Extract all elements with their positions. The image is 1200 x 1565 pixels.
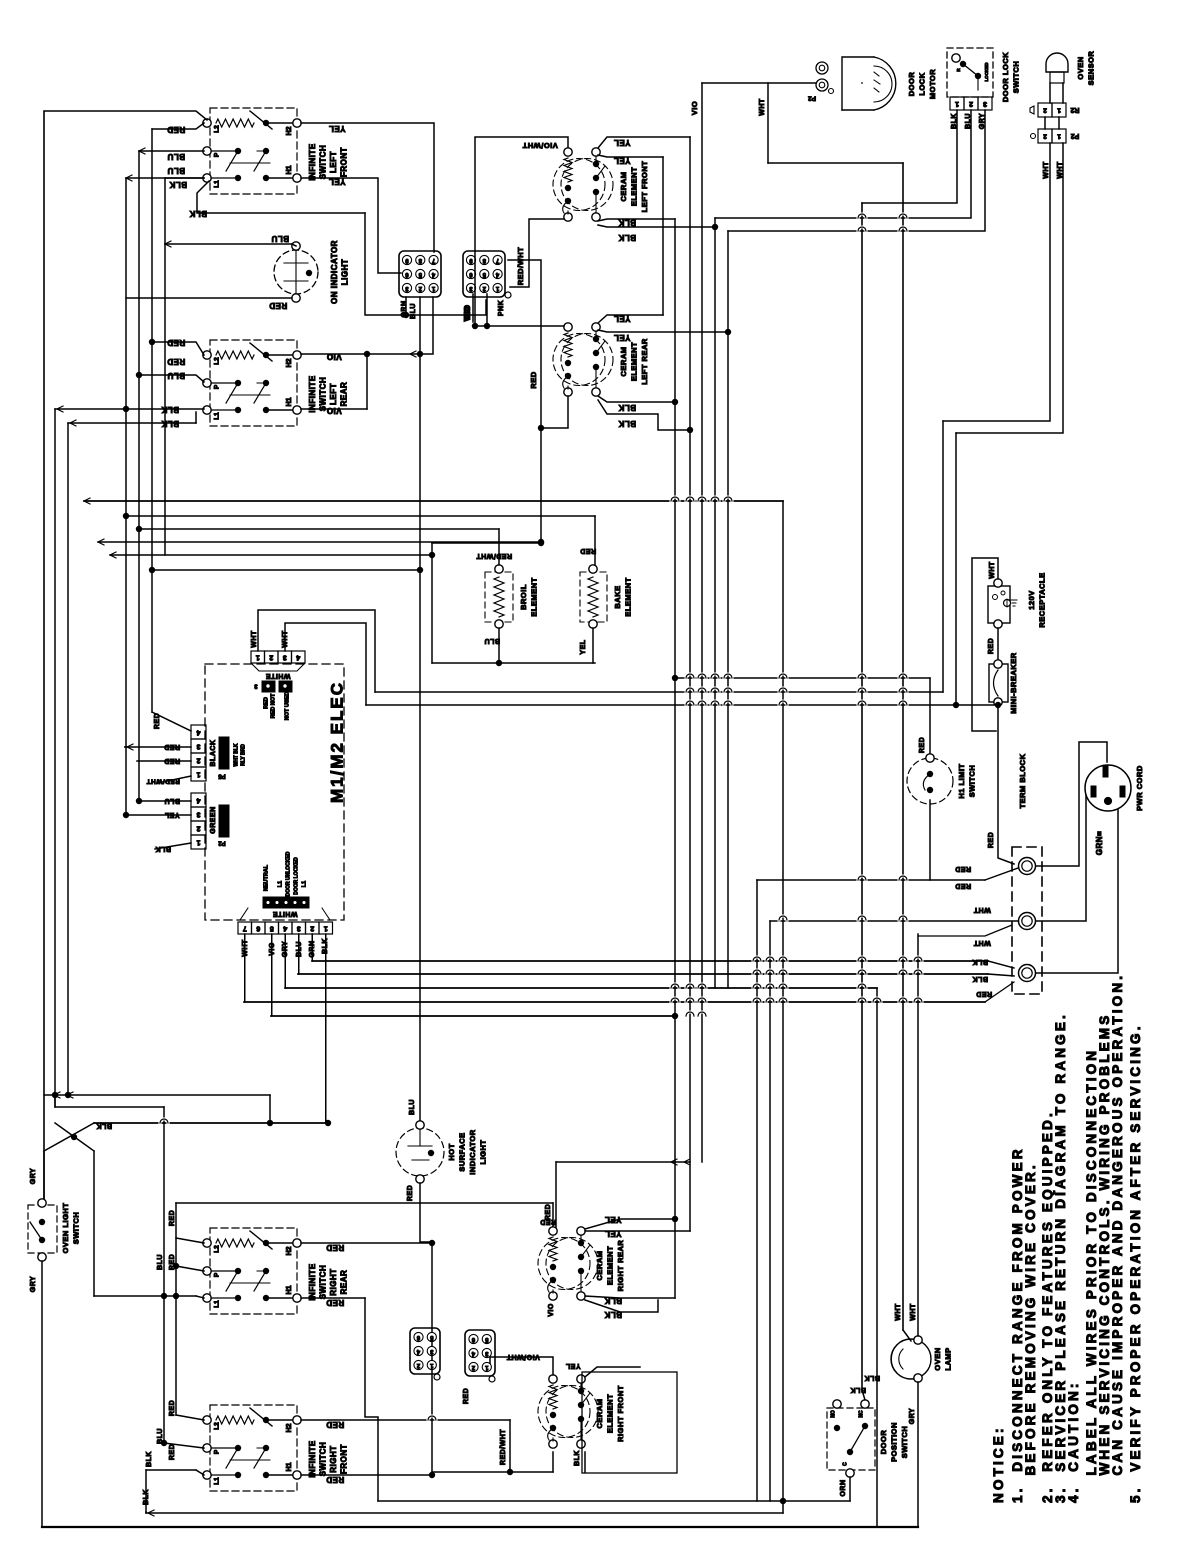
- svg-text:1: 1: [196, 771, 200, 778]
- svg-text:7: 7: [243, 925, 247, 932]
- svg-text:H1: H1: [286, 1285, 293, 1294]
- svg-text:BLACK: BLACK: [210, 740, 217, 767]
- svg-text:BLK: BLK: [169, 180, 187, 189]
- svg-text:YEL: YEL: [565, 1362, 580, 1369]
- svg-text:H2: H2: [286, 1423, 293, 1432]
- svg-text:BLU: BLU: [164, 797, 180, 804]
- svg-text:MINI-BREAKER: MINI-BREAKER: [1009, 652, 1018, 713]
- svg-text:POSITION: POSITION: [889, 1422, 898, 1462]
- svg-text:BLU: BLU: [484, 637, 500, 644]
- svg-text:MOTOR: MOTOR: [928, 69, 937, 99]
- svg-text:BLK: BLK: [574, 1450, 581, 1466]
- svg-text:RED: RED: [263, 697, 269, 709]
- svg-text:LOCKED: LOCKED: [984, 62, 989, 82]
- svg-text:RIGHT REAR: RIGHT REAR: [616, 1240, 625, 1292]
- svg-text:YEL: YEL: [613, 333, 630, 342]
- svg-text:BLK: BLK: [972, 975, 988, 982]
- svg-text:RED: RED: [269, 301, 287, 310]
- svg-text:INFINITE: INFINITE: [308, 143, 317, 180]
- svg-text:L1: L1: [277, 881, 283, 887]
- svg-text:CERAM: CERAM: [619, 172, 628, 202]
- svg-text:1: 1: [955, 100, 959, 107]
- svg-text:SWITCH: SWITCH: [319, 1265, 328, 1300]
- svg-text:4. CAUTION:: 4. CAUTION:: [1066, 1380, 1081, 1503]
- svg-text:BLK: BLK: [864, 1374, 880, 1381]
- svg-text:FRONT: FRONT: [340, 147, 349, 177]
- svg-text:ELEMENT: ELEMENT: [605, 1394, 614, 1433]
- svg-text:4: 4: [283, 925, 287, 932]
- svg-text:RED: RED: [164, 743, 180, 750]
- svg-text:RED: RED: [545, 1204, 552, 1220]
- svg-text:120V: 120V: [1027, 590, 1036, 610]
- svg-text:L1: L1: [214, 1477, 221, 1485]
- svg-text:BLU: BLU: [157, 1254, 164, 1270]
- svg-text:RED: RED: [169, 1400, 176, 1416]
- svg-text:3: 3: [283, 654, 287, 661]
- svg-text:DOOR: DOOR: [907, 72, 916, 97]
- svg-text:3: 3: [196, 811, 200, 818]
- svg-text:RED: RED: [976, 990, 992, 997]
- svg-text:GRY: GRY: [30, 1276, 37, 1292]
- svg-text:H2: H2: [286, 1246, 293, 1255]
- svg-text:BLK: BLK: [618, 419, 636, 428]
- svg-text:RED/WHT: RED/WHT: [476, 552, 512, 559]
- svg-text:VIO: VIO: [548, 1303, 555, 1317]
- svg-text:PWR CORD: PWR CORD: [1135, 765, 1144, 811]
- svg-text:BLK: BLK: [618, 403, 636, 412]
- svg-text:INDICATOR: INDICATOR: [468, 1129, 477, 1175]
- svg-text:INFINITE: INFINITE: [308, 1263, 317, 1300]
- svg-text:1: 1: [324, 925, 328, 932]
- svg-text:RIGHT: RIGHT: [329, 1445, 338, 1472]
- svg-text:SWITCH: SWITCH: [319, 377, 328, 412]
- svg-text:BLK: BLK: [850, 1386, 866, 1393]
- svg-text:LEFT FRONT: LEFT FRONT: [640, 161, 649, 213]
- svg-text:H2: H2: [286, 358, 293, 367]
- svg-text:INFINITE: INFINITE: [308, 375, 317, 412]
- svg-text:WHT: WHT: [973, 906, 991, 913]
- svg-text:WHT: WHT: [973, 939, 991, 946]
- svg-text:GREEN: GREEN: [210, 806, 217, 833]
- svg-text:L2: L2: [214, 1245, 221, 1253]
- svg-text:CAN CAUSE IMPROPER AND DANGERO: CAN CAUSE IMPROPER AND DANGEROUS OPERATI…: [1110, 973, 1125, 1503]
- svg-text:SWITCH: SWITCH: [900, 1426, 909, 1459]
- svg-text:ELEMENT: ELEMENT: [623, 577, 632, 616]
- svg-text:P: P: [214, 384, 221, 389]
- svg-text:OVEN LIGHT: OVEN LIGHT: [61, 1203, 70, 1254]
- svg-text:CERAM: CERAM: [619, 347, 628, 377]
- svg-text:ELEMENT: ELEMENT: [605, 1246, 614, 1285]
- svg-text:C: C: [842, 1462, 848, 1466]
- svg-text:VIO: VIO: [463, 306, 472, 321]
- svg-text:ELEMENT: ELEMENT: [529, 577, 538, 616]
- svg-text:GRN≡: GRN≡: [1095, 831, 1104, 855]
- svg-text:WHT: WHT: [910, 1303, 917, 1321]
- svg-text:INFINITE: INFINITE: [308, 1440, 317, 1477]
- svg-text:RED: RED: [326, 1243, 344, 1252]
- svg-text:GRY: GRY: [30, 1168, 37, 1184]
- svg-text:BLU: BLU: [167, 152, 185, 161]
- svg-text:NO: NO: [830, 1410, 836, 1418]
- svg-text:ELEMENT: ELEMENT: [629, 167, 638, 206]
- svg-text:YEL: YEL: [328, 124, 345, 133]
- svg-text:1: 1: [1057, 106, 1061, 113]
- svg-text:WHT: WHT: [1043, 161, 1050, 179]
- svg-text:NOTICE:: NOTICE:: [991, 1425, 1006, 1503]
- svg-text:P2: P2: [218, 839, 226, 845]
- svg-text:L1: L1: [301, 881, 307, 887]
- svg-text:RED: RED: [463, 1388, 470, 1404]
- svg-text:LIGHT: LIGHT: [341, 259, 350, 286]
- svg-text:H2: H2: [286, 126, 293, 135]
- svg-text:R2: R2: [1070, 106, 1079, 113]
- svg-text:DOOR LOCKED: DOOR LOCKED: [293, 857, 299, 895]
- svg-text:RED: RED: [326, 1475, 344, 1484]
- svg-text:RECEPTACLE: RECEPTACLE: [1037, 572, 1046, 627]
- svg-text:RED/WHT: RED/WHT: [516, 247, 525, 286]
- svg-text:SWITCH: SWITCH: [319, 1442, 328, 1477]
- svg-text:YEL: YEL: [613, 138, 630, 147]
- svg-text:WHT: WHT: [1057, 161, 1064, 179]
- svg-text:2: 2: [269, 654, 273, 661]
- svg-text:RED: RED: [407, 1185, 414, 1201]
- svg-text:NEUTRAL: NEUTRAL: [263, 864, 269, 891]
- svg-text:RED: RED: [529, 371, 538, 388]
- svg-text:P5: P5: [218, 772, 226, 778]
- svg-text:L1: L1: [214, 1300, 221, 1308]
- svg-text:BLK: BLK: [155, 845, 171, 852]
- svg-text:RED: RED: [326, 1298, 344, 1307]
- svg-text:YEL: YEL: [604, 1229, 621, 1238]
- svg-text:CERAM: CERAM: [595, 1251, 604, 1281]
- svg-text:RIGHT FRONT: RIGHT FRONT: [616, 1385, 625, 1442]
- svg-text:VIO: VIO: [690, 101, 699, 115]
- svg-text:2: 2: [969, 100, 973, 107]
- svg-text:HOT: HOT: [447, 1143, 456, 1160]
- svg-text:4: 4: [196, 729, 200, 736]
- svg-text:SWITCH: SWITCH: [319, 145, 328, 180]
- svg-text:WHT BLK: WHT BLK: [233, 743, 239, 766]
- svg-text:WHT: WHT: [989, 561, 996, 579]
- svg-text:RED NOT: RED NOT: [270, 693, 276, 718]
- svg-text:DOOR: DOOR: [879, 1430, 888, 1455]
- svg-text:BLK: BLK: [96, 1122, 112, 1129]
- svg-text:WHT: WHT: [895, 1303, 902, 1321]
- svg-text:1: 1: [256, 654, 260, 661]
- svg-text:RED: RED: [580, 547, 596, 554]
- svg-text:H1: H1: [286, 1462, 293, 1471]
- svg-text:H1: H1: [286, 165, 293, 174]
- svg-text:L1: L1: [214, 412, 221, 420]
- svg-text:RED: RED: [164, 757, 180, 764]
- svg-text:VIO: VIO: [326, 352, 341, 361]
- svg-text:REAR: REAR: [340, 1270, 349, 1295]
- svg-text:BLU: BLU: [167, 166, 185, 175]
- svg-text:VIO/WHT: VIO/WHT: [522, 141, 558, 150]
- svg-text:WHT: WHT: [759, 98, 766, 116]
- svg-text:RED: RED: [154, 713, 161, 729]
- svg-text:NC: NC: [858, 1410, 864, 1418]
- svg-text:RED: RED: [326, 1420, 344, 1429]
- svg-text:RED: RED: [169, 1210, 176, 1226]
- svg-text:WHT: WHT: [251, 630, 258, 648]
- svg-text:YEL: YEL: [580, 639, 587, 654]
- svg-text:LEFT REAR: LEFT REAR: [640, 338, 649, 385]
- svg-text:RED/WHT: RED/WHT: [146, 777, 180, 784]
- svg-text:GRY: GRY: [909, 1408, 916, 1424]
- svg-text:P2: P2: [808, 94, 816, 101]
- svg-text:TERM BLOCK: TERM BLOCK: [1018, 753, 1027, 808]
- svg-text:YEL: YEL: [164, 811, 179, 818]
- svg-text:OVEN: OVEN: [933, 1347, 942, 1370]
- svg-text:BLU: BLU: [409, 1099, 416, 1115]
- svg-text:DOOR LOCK: DOOR LOCK: [1001, 52, 1010, 102]
- svg-text:SWITCH: SWITCH: [71, 1212, 80, 1245]
- svg-text:1: 1: [196, 839, 200, 846]
- svg-text:OVEN: OVEN: [1076, 56, 1085, 79]
- svg-text:BAKE: BAKE: [613, 585, 622, 608]
- svg-text:2: 2: [1043, 132, 1047, 139]
- svg-text:FRONT: FRONT: [340, 1444, 349, 1474]
- svg-text:4: 4: [296, 654, 300, 661]
- svg-text:P: P: [214, 1449, 221, 1454]
- svg-text:SENSOR: SENSOR: [1086, 51, 1095, 86]
- svg-text:5: 5: [270, 925, 274, 932]
- svg-text:NOT USED: NOT USED: [284, 692, 290, 720]
- svg-text:RED: RED: [955, 865, 971, 872]
- svg-text:BLU: BLU: [271, 234, 289, 243]
- svg-text:RED: RED: [167, 357, 185, 366]
- svg-text:WHITE: WHITE: [272, 910, 297, 917]
- svg-text:LIGHT: LIGHT: [478, 1140, 487, 1165]
- svg-text:REAR: REAR: [340, 382, 349, 407]
- svg-text:P: P: [214, 152, 221, 157]
- svg-text:BROIL: BROIL: [519, 584, 528, 610]
- svg-text:4: 4: [196, 797, 200, 804]
- svg-text:2: 2: [196, 825, 200, 832]
- svg-text:SWITCH: SWITCH: [967, 765, 976, 798]
- svg-text:3: 3: [983, 100, 987, 107]
- svg-text:CERAM: CERAM: [595, 1399, 604, 1429]
- svg-text:RED: RED: [955, 882, 971, 889]
- svg-text:RLY BRD: RLY BRD: [240, 744, 246, 766]
- svg-text:BLK: BLK: [618, 233, 636, 242]
- svg-text:LOCK: LOCK: [917, 72, 926, 95]
- svg-text:2: 2: [1043, 106, 1047, 113]
- svg-text:RED: RED: [988, 832, 995, 848]
- svg-text:RED: RED: [919, 737, 926, 753]
- svg-text:WHITE: WHITE: [265, 672, 290, 679]
- svg-text:3: 3: [196, 743, 200, 750]
- svg-text:P2: P2: [1071, 132, 1080, 139]
- svg-text:RIGHT: RIGHT: [329, 1268, 338, 1295]
- svg-text:RED: RED: [540, 1218, 556, 1225]
- svg-text:6: 6: [256, 925, 260, 932]
- svg-text:5. VERIFY PROPER OPERATION AF: 5. VERIFY PROPER OPERATION AFTER SERVICI…: [1128, 1023, 1143, 1503]
- svg-text:RED/WHT: RED/WHT: [500, 1429, 507, 1465]
- svg-text:P: P: [214, 1272, 221, 1277]
- svg-text:L2: L2: [214, 125, 221, 133]
- svg-text:LEFT: LEFT: [329, 151, 338, 173]
- svg-text:BLU: BLU: [410, 303, 417, 319]
- svg-text:PNK: PNK: [498, 300, 505, 316]
- svg-text:SURFACE: SURFACE: [457, 1132, 466, 1171]
- svg-text:DOOR UNLOCKED: DOOR UNLOCKED: [285, 851, 291, 896]
- svg-text:H1 LIMIT: H1 LIMIT: [957, 763, 966, 798]
- svg-text:3: 3: [297, 925, 301, 932]
- svg-text:RED: RED: [169, 1444, 176, 1460]
- svg-text:RED: RED: [988, 638, 995, 654]
- svg-text:BEFORE REMOVING WIRE COVER.: BEFORE REMOVING WIRE COVER.: [1023, 1162, 1038, 1503]
- svg-text:LAMP: LAMP: [943, 1347, 952, 1370]
- svg-text:ELEMENT: ELEMENT: [629, 342, 638, 381]
- svg-text:VIO: VIO: [326, 406, 341, 415]
- svg-text:ON INDICATOR: ON INDICATOR: [330, 240, 339, 304]
- svg-text:1: 1: [1057, 132, 1061, 139]
- svg-text:LEFT: LEFT: [329, 383, 338, 405]
- svg-text:BLK: BLK: [972, 958, 988, 965]
- svg-text:ORN: ORN: [840, 1479, 847, 1496]
- svg-text:2: 2: [310, 925, 314, 932]
- svg-text:BLK: BLK: [146, 1451, 153, 1467]
- svg-text:H1: H1: [286, 397, 293, 406]
- svg-text:L1: L1: [214, 180, 221, 188]
- svg-text:L2: L2: [214, 1422, 221, 1430]
- svg-text:L2: L2: [214, 357, 221, 365]
- svg-text:2: 2: [196, 757, 200, 764]
- svg-text:M1/M2 ELEC: M1/M2 ELEC: [327, 681, 346, 803]
- svg-text:SWITCH: SWITCH: [1011, 61, 1020, 94]
